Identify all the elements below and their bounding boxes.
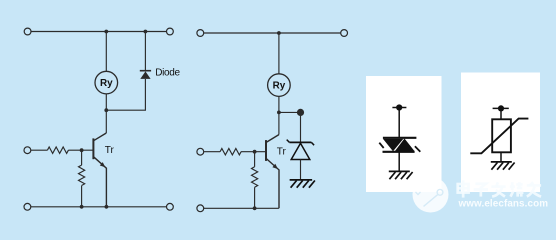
svg-text:Diode: Diode: [155, 67, 180, 78]
svg-text:Tr: Tr: [277, 147, 287, 158]
svg-text:www.elecfans.com: www.elecfans.com: [458, 198, 549, 209]
svg-text:Tr: Tr: [105, 145, 115, 156]
svg-text:Ry: Ry: [273, 81, 286, 92]
svg-text:Ry: Ry: [100, 78, 113, 89]
